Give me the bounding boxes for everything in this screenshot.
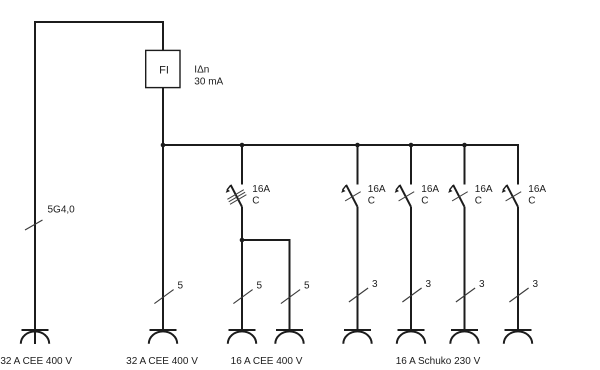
wire main feed: left vertical + top horizontal into RCD [35, 22, 163, 344]
breaker Q1 16A C 3-pole [226, 184, 271, 207]
svg-text:16A: 16A [475, 184, 493, 195]
svg-text:5G4,0: 5G4,0 [48, 205, 76, 216]
wire drop circuit 2 lower [241, 207, 243, 330]
node junction dot bus circuit 4 [409, 143, 414, 148]
socket X6 Schuko [397, 330, 425, 344]
label IΔn 30 mA [194, 65, 223, 88]
socket X1 32A CEE [21, 330, 49, 344]
breaker Q5 16A C [502, 184, 547, 207]
node junction dot bus at FI drop [161, 143, 166, 148]
socket X2 32A CEE [149, 330, 177, 344]
wire drop circuit 2 upper [241, 145, 243, 185]
svg-text:3: 3 [533, 279, 539, 290]
wire drop circuit 3 upper [357, 145, 359, 185]
socket X8 Schuko [504, 330, 532, 344]
svg-text:16 A Schuko 230 V: 16 A Schuko 230 V [396, 356, 481, 367]
RCD FI box U1 [146, 50, 180, 87]
wire drop circuit 6 upper [517, 144, 519, 185]
svg-text:32 A CEE 400 V: 32 A CEE 400 V [126, 356, 198, 367]
cable mark 5 on branch [281, 280, 310, 303]
svg-text:5: 5 [178, 280, 184, 291]
svg-text:C: C [475, 196, 482, 207]
wire drop circuit 4 lower [410, 207, 412, 330]
cable mark 5 on drop 2 [233, 280, 262, 303]
cable mark 3 on drop 6 [509, 279, 538, 302]
wire drop circuit 5 upper [464, 145, 466, 185]
wire bus horizontal [162, 144, 518, 146]
socket X7 Schuko [450, 330, 478, 344]
svg-text:16A: 16A [421, 184, 439, 195]
svg-text:16A: 16A [528, 184, 546, 195]
breaker Q4 16A C [448, 184, 493, 207]
wire drop circuit 5 lower [464, 207, 466, 330]
svg-text:16A: 16A [368, 184, 386, 195]
svg-text:C: C [421, 196, 428, 207]
svg-text:C: C [252, 196, 259, 207]
node junction dot bus circuit 2 [240, 143, 245, 148]
svg-text:16A: 16A [252, 184, 270, 195]
svg-text:C: C [528, 196, 535, 207]
wire branch to second CEE socket [242, 240, 290, 330]
breaker Q3 16A C [395, 184, 440, 207]
wire drop circuit 6 lower [517, 207, 519, 330]
breaker Q2 16A C [341, 184, 386, 207]
socket X5 Schuko [343, 330, 371, 344]
svg-text:FI: FI [159, 64, 169, 76]
svg-text:30 mA: 30 mA [194, 77, 223, 88]
node junction dot branch circuit 2 [240, 238, 245, 243]
cable mark 3 on drop 3 [349, 279, 378, 302]
cable mark 5G4,0 on feed [25, 205, 75, 230]
svg-text:16 A CEE 400 V: 16 A CEE 400 V [231, 356, 303, 367]
wire FI output down to bus [162, 88, 164, 330]
wire drop circuit 4 upper [410, 145, 412, 185]
svg-text:IΔn: IΔn [194, 65, 209, 76]
svg-text:32 A CEE 400 V: 32 A CEE 400 V [0, 356, 72, 367]
node junction dot bus circuit 3 [355, 143, 360, 148]
svg-text:3: 3 [479, 279, 485, 290]
cable mark 3 on drop 4 [402, 279, 431, 302]
socket X4 16A CEE [275, 330, 303, 344]
svg-text:5: 5 [304, 280, 310, 291]
svg-text:C: C [368, 196, 375, 207]
svg-text:3: 3 [372, 279, 378, 290]
cable mark 3 on drop 5 [456, 279, 485, 302]
svg-text:5: 5 [257, 280, 263, 291]
cable mark 5 on drop 1 [154, 280, 183, 303]
wire drop circuit 3 lower [357, 207, 359, 330]
node junction dot bus circuit 5 [462, 143, 467, 148]
svg-text:3: 3 [426, 279, 432, 290]
socket X3 16A CEE [228, 330, 256, 344]
